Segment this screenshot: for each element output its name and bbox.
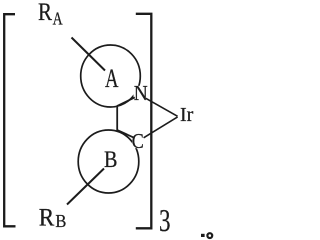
svg-text:N: N (134, 81, 148, 105)
bond RB to ring B (67, 169, 104, 205)
halo behind C (132, 134, 145, 149)
artifact ring dot (207, 233, 212, 238)
label RB (39, 204, 67, 231)
ring A circle (81, 45, 141, 107)
ring B circle (78, 130, 139, 193)
svg-text:Ir: Ir (180, 104, 194, 126)
bond vertexB to C (117, 130, 133, 137)
left bracket (4, 14, 15, 226)
svg-text:R: R (39, 204, 55, 231)
label RA (38, 0, 63, 29)
svg-text:3: 3 (159, 202, 171, 238)
bond RA to ring A (72, 38, 106, 71)
bond vertexA to N (117, 97, 135, 106)
svg-text:R: R (38, 0, 52, 26)
svg-text:B: B (55, 211, 66, 231)
right bracket (136, 14, 152, 229)
bond C to Ir (144, 117, 178, 138)
artifact square dot (201, 234, 205, 237)
svg-text:B: B (104, 147, 118, 173)
svg-text:A: A (53, 9, 63, 29)
halo behind N (134, 86, 149, 101)
svg-text:A: A (105, 64, 119, 93)
ring fusion bond A-B (116, 106, 118, 131)
bond N to Ir (146, 98, 178, 116)
svg-text:C: C (132, 129, 144, 153)
